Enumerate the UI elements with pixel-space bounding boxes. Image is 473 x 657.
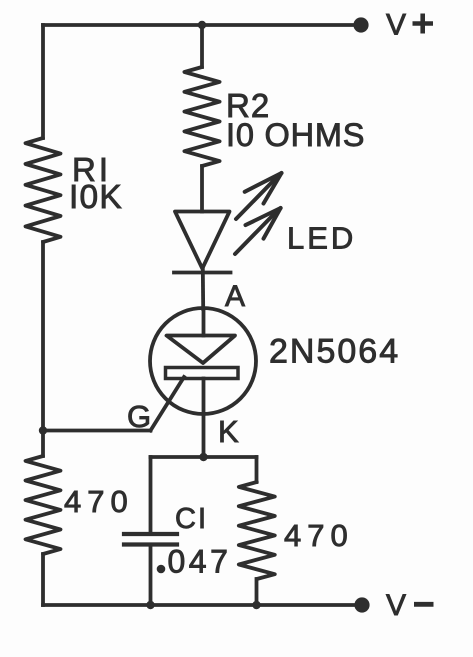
wire R2 branch drop <box>200 25 204 67</box>
wire K node horizontal <box>151 455 257 459</box>
resistor R1 <box>26 138 61 242</box>
svg-text:I0K: I0K <box>69 179 123 216</box>
wire LED to SCR anode <box>201 269 205 310</box>
wire gate horizontal <box>43 429 151 433</box>
light arrow 2 (lower) <box>235 208 281 254</box>
terminal V- <box>354 597 369 612</box>
SCR triangle <box>167 336 236 364</box>
wire C1 top lead <box>149 457 153 533</box>
svg-text:K: K <box>218 414 239 449</box>
svg-text:LED: LED <box>287 221 356 256</box>
minus sign of V- <box>414 602 434 607</box>
svg-text:2N5064: 2N5064 <box>269 333 400 371</box>
node top rail R2 junction <box>198 21 206 29</box>
wire anode stub inside SCR <box>202 309 206 336</box>
wire C1 bottom lead <box>149 545 153 606</box>
resistor R3 470 left <box>26 456 61 554</box>
SCR cathode bar <box>166 368 239 379</box>
node right resistor bottom junction <box>252 601 260 609</box>
resistor R2 <box>184 67 219 166</box>
wire left bottom lead <box>41 554 45 605</box>
wire gate diagonal <box>151 377 185 431</box>
svg-text:470: 470 <box>284 518 354 553</box>
resistor R4 470 right <box>239 482 275 579</box>
wire top rail V+ <box>43 23 361 27</box>
svg-text:A: A <box>225 280 245 313</box>
wire right branch bottom lead <box>255 579 259 605</box>
svg-text:470: 470 <box>64 484 134 519</box>
wire R1 bottom to gate node <box>41 242 45 456</box>
svg-text:047: 047 <box>168 544 232 580</box>
terminal V+ <box>353 17 368 32</box>
wire bottom rail V- <box>43 603 362 607</box>
light arrow 1 (upper) <box>236 173 282 219</box>
decimal point of .047 <box>157 565 166 574</box>
node gate junction <box>39 426 47 434</box>
svg-text:G: G <box>127 399 151 434</box>
svg-text:V: V <box>386 589 406 622</box>
node C1 bottom junction <box>146 601 154 609</box>
wire R2 to LED <box>200 166 204 212</box>
LED cathode bar <box>174 271 231 275</box>
wire SCR cathode to K node <box>202 379 206 458</box>
plus sign of V+ <box>413 14 434 34</box>
wire left vertical (top rail to R1) <box>41 25 45 138</box>
wire right branch top lead <box>255 457 259 482</box>
svg-text:V: V <box>386 9 406 42</box>
SCR U1 circle 2N5064 <box>150 308 256 414</box>
node K junction <box>199 453 207 461</box>
svg-text:CI: CI <box>175 503 208 535</box>
capacitor C1 top plate <box>124 532 177 536</box>
LED triangle <box>175 212 230 269</box>
capacitor C1 bottom plate <box>124 542 177 546</box>
svg-text:I0 OHMS: I0 OHMS <box>226 117 365 153</box>
